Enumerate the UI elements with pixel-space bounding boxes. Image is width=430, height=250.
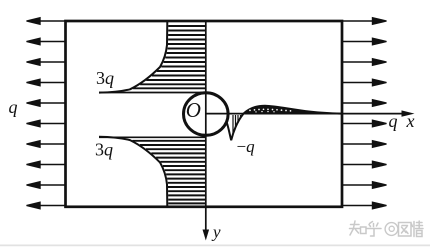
svg-text:3q: 3q — [95, 140, 113, 160]
svg-text:y: y — [211, 223, 221, 242]
svg-text:q: q — [389, 111, 398, 131]
svg-text:O: O — [186, 98, 201, 122]
svg-text:x: x — [406, 111, 415, 131]
svg-text:3q: 3q — [96, 68, 114, 88]
svg-text:q: q — [9, 97, 18, 117]
svg-text:−q: −q — [237, 137, 256, 156]
